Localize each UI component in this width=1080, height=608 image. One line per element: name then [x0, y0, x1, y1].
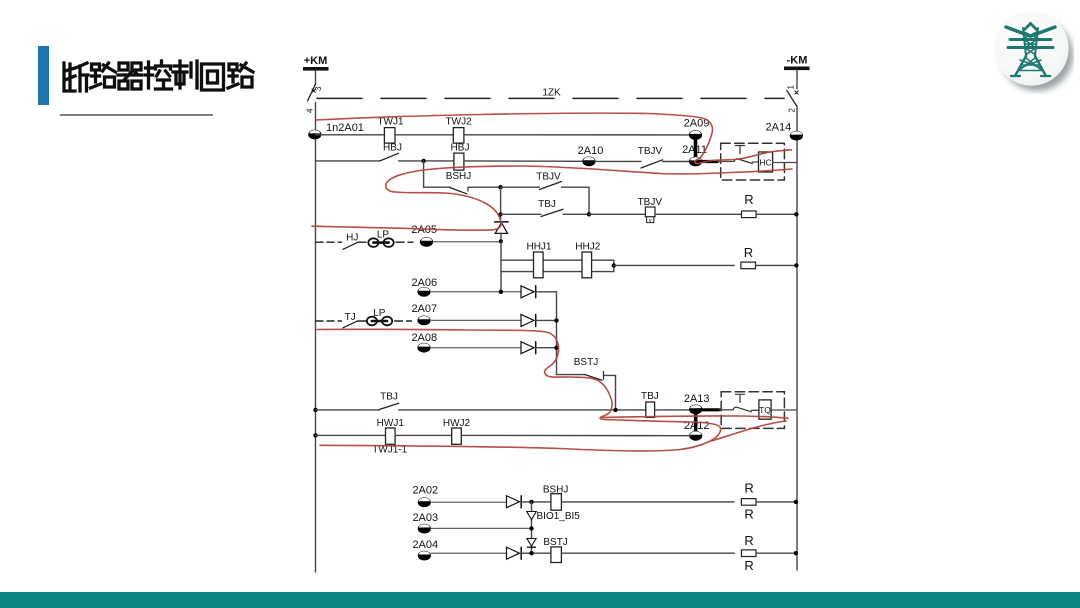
- title accent bar: [38, 46, 49, 105]
- node 2A09: [689, 130, 702, 140]
- svg-text:R: R: [744, 192, 753, 207]
- node 2A03: [418, 524, 431, 534]
- svg-text:HBJ: HBJ: [383, 143, 402, 154]
- contact TBJV blade (branch): [540, 182, 562, 190]
- red annotation tail D1: [601, 416, 788, 418]
- red annotation stroke C: [317, 329, 721, 451]
- svg-text:TWJ1: TWJ1: [377, 117, 404, 128]
- junction bus 2A07: [554, 318, 558, 322]
- wire to HC coil: [753, 161, 759, 163]
- contact BSHJ right stub: [468, 187, 501, 191]
- dashed breaker box (TQ): [721, 392, 784, 429]
- svg-text:TBJV: TBJV: [638, 146, 663, 157]
- svg-text:2A04: 2A04: [412, 539, 438, 551]
- coil TQ box: [759, 400, 771, 419]
- wire after HHJ2 upper: [592, 259, 614, 261]
- svg-text:HHJ1: HHJ1: [526, 241, 551, 252]
- svg-text:3: 3: [314, 86, 323, 91]
- wire D3 to bus: [536, 319, 557, 321]
- svg-text:HJ: HJ: [346, 233, 358, 244]
- red annotation stroke B: [312, 166, 792, 230]
- wire row1 mid: [395, 134, 453, 136]
- junction left rail row4: [313, 408, 317, 412]
- bold link 2A13-2A12: [694, 412, 698, 433]
- wire to 2A11: [663, 161, 691, 163]
- wire HHJ merge vertical: [613, 260, 615, 271]
- svg-text:4: 4: [306, 108, 315, 113]
- svg-text:TBJ: TBJ: [538, 199, 556, 210]
- junction right rail 2A04: [794, 551, 798, 555]
- junction HHJ output: [612, 263, 616, 267]
- red annotation tail D2: [711, 421, 786, 441]
- breaker aux link mark (TQ): [736, 394, 745, 402]
- svg-text:R: R: [744, 480, 753, 495]
- relay BSHJ coil box (bottom): [551, 494, 562, 511]
- wire row5 mid: [395, 434, 452, 436]
- svg-text:1: 1: [787, 85, 796, 90]
- bold stub 2A11 right: [698, 160, 718, 163]
- relay HBJ coil box (row2): [454, 153, 464, 170]
- node 2A08: [417, 343, 430, 353]
- contact TBJ blade: [541, 209, 563, 216]
- wire row5 right: [461, 434, 690, 436]
- node 2A10: [582, 157, 595, 167]
- dash after LP: [396, 241, 413, 243]
- wire TBJV to resistor: [655, 213, 742, 215]
- link LP (TJ row): [367, 317, 392, 326]
- wire row2: [399, 160, 454, 162]
- wire left rail: [315, 103, 317, 573]
- dashed breaker box (HC): [721, 143, 785, 180]
- svg-text:R: R: [744, 506, 753, 521]
- wire corner down: [588, 187, 590, 214]
- wire row5 left: [316, 434, 386, 436]
- node 1n2A01: [308, 130, 321, 140]
- wire resistor to rail (2A02): [756, 501, 797, 503]
- dash after LP (TJ row): [395, 320, 412, 322]
- wire TQ to right rail: [771, 409, 797, 411]
- svg-text:BSTJ: BSTJ: [574, 357, 598, 368]
- wire row1 right: [464, 134, 690, 136]
- resistor R (2A02 row): [741, 499, 756, 506]
- wire right rail: [796, 107, 798, 571]
- wire node A to TBJV blade: [501, 186, 540, 188]
- diode D2 (2A06 row): [521, 286, 536, 298]
- relay TWJ1 coil box: [384, 128, 395, 144]
- junction bus 2A08: [554, 346, 558, 350]
- wire after HHJ2 lower: [592, 271, 614, 273]
- switch QF pole (left) blade: [308, 84, 316, 101]
- pin mark x: [312, 89, 315, 92]
- wire 2A02 row: [431, 501, 508, 503]
- junction 2A02 column: [529, 500, 533, 504]
- relay TWJ2 coil box: [453, 128, 464, 144]
- relay HWJ2 coil box: [452, 428, 462, 444]
- breaker aux contact blade: [734, 159, 753, 164]
- junction right rail row 214: [794, 212, 798, 216]
- -KM bus bar: [784, 67, 810, 71]
- contact BSHJ blade: [450, 188, 467, 194]
- wire row2 right: [464, 160, 584, 162]
- svg-text:R: R: [744, 245, 753, 260]
- junction TBJ/TBJV merge: [587, 212, 591, 216]
- diode D7 (link, down): [527, 539, 536, 547]
- title glyphs 断路器控制回路 (hand drawn strokes): [62, 59, 262, 99]
- bottom teal bar: [0, 592, 1080, 608]
- wire row4 mid: [399, 409, 646, 411]
- junction BSTJ/row4: [613, 408, 617, 412]
- svg-text:BIO1_BI5: BIO1_BI5: [537, 511, 581, 522]
- junction right rail row 265: [794, 263, 798, 267]
- diode D3 (2A07 row): [521, 314, 536, 326]
- wire HHJ lower branch: [501, 271, 534, 273]
- dashed wire HJ row: [316, 241, 342, 243]
- svg-text:2A10: 2A10: [578, 145, 604, 157]
- wire BSHJ to resistor: [561, 501, 734, 503]
- wire diode column down: [500, 242, 502, 272]
- wire HHJ upper branch: [501, 259, 534, 261]
- wire diode to 2A05 row: [500, 233, 502, 241]
- junction row2/BSHJ branch: [421, 159, 425, 163]
- wire D5 to junction: [522, 501, 551, 503]
- node 2A13: [689, 405, 702, 415]
- diode D5 (2A02 row): [507, 496, 522, 508]
- node 2A12: [689, 431, 702, 441]
- wire 2A06 row: [431, 291, 522, 293]
- dash after HJ: [358, 241, 366, 243]
- junction right rail 2A02: [794, 500, 798, 504]
- wire row4 to 2A13: [655, 409, 691, 411]
- bus vertical: [556, 292, 558, 375]
- dash after TJ: [358, 320, 366, 322]
- svg-text:v: v: [649, 218, 652, 224]
- svg-text:TBJ: TBJ: [641, 391, 659, 402]
- svg-text:BSTJ: BSTJ: [543, 537, 567, 548]
- svg-text:2: 2: [788, 108, 797, 113]
- wire 2A04 row: [431, 552, 508, 554]
- diode D7 bar: [528, 546, 536, 548]
- relay HWJ1 coil box: [386, 428, 396, 444]
- link LP (HJ row): [368, 238, 393, 247]
- wire row2 left: [316, 160, 380, 162]
- svg-text:HBJ: HBJ: [451, 143, 470, 154]
- wire 2A08 row: [431, 347, 522, 349]
- wire BSTJ corner down: [615, 375, 617, 409]
- wire TBJV to corner: [562, 186, 590, 188]
- wire -KM down: [796, 70, 798, 89]
- vertical link 2A02-2A04: [531, 502, 533, 553]
- contact TJ blade: [343, 321, 358, 328]
- junction 2A06/diode column: [499, 290, 503, 294]
- relay TBJ coil box (row4): [646, 402, 655, 417]
- relay BSTJ coil box (bottom): [551, 547, 562, 563]
- wire diode column to 2A06 row: [500, 272, 502, 292]
- svg-text:2A14: 2A14: [766, 121, 792, 133]
- node 2A07: [417, 316, 430, 326]
- wire 2A07 row: [431, 319, 522, 321]
- bold stub 2A13 right: [698, 408, 719, 411]
- svg-text:TBJ: TBJ: [380, 392, 398, 403]
- pin mark x: [795, 91, 798, 94]
- contact HJ blade: [343, 242, 358, 249]
- wire row2 to TBJV contact: [595, 160, 641, 162]
- svg-text:1n2A01: 1n2A01: [326, 122, 364, 134]
- svg-text:2A13: 2A13: [684, 393, 710, 405]
- wire to TQ coil: [752, 409, 759, 411]
- wire BSTJ to corner: [604, 374, 616, 376]
- wire TBJ row: [501, 213, 541, 215]
- svg-text:TJ: TJ: [345, 312, 356, 323]
- svg-text:2A07: 2A07: [411, 303, 437, 315]
- diode D4 (2A08 row): [521, 342, 536, 354]
- svg-text:TQ: TQ: [759, 405, 771, 415]
- svg-text:2A08: 2A08: [411, 332, 437, 344]
- svg-text:HC: HC: [759, 158, 771, 168]
- junction TBJ row: [499, 212, 503, 216]
- svg-text:TBJV: TBJV: [536, 171, 561, 182]
- bold link 2A09-2A11: [694, 138, 698, 159]
- svg-text:2A03: 2A03: [412, 512, 438, 524]
- resistor R (row 214): [742, 211, 757, 218]
- diode D1 (up) triangle: [495, 223, 507, 234]
- svg-text:+KM: +KM: [304, 55, 328, 67]
- coil HC box: [759, 152, 773, 172]
- wire to TBJV relay: [589, 213, 645, 215]
- wire bus corner to BSTJ contact: [557, 374, 586, 376]
- contact HBJ blade: [380, 153, 399, 161]
- wire BSTJ to resistor (bottom): [561, 552, 734, 554]
- wire 2A05 to diode column: [433, 241, 501, 243]
- wire between HHJ boxes upper: [543, 259, 582, 261]
- wire 2A03 row: [431, 527, 532, 529]
- svg-text:TBJV: TBJV: [638, 197, 663, 208]
- relay TBJV coil box with V element: [645, 207, 655, 217]
- wire HC to right rail: [773, 162, 797, 164]
- svg-text:1ZK: 1ZK: [542, 88, 561, 99]
- resistor R (row 265): [741, 262, 756, 269]
- wire D2 to bus: [536, 291, 557, 293]
- wire resistor to rail: [756, 213, 797, 215]
- title underline: [60, 114, 213, 116]
- node 2A04: [418, 551, 431, 561]
- 1ZK dashed boundary line: [317, 97, 784, 99]
- diode D1 (up) bar: [495, 221, 509, 223]
- wire TBJ to junction: [563, 213, 589, 215]
- wire row4 left: [316, 409, 380, 411]
- svg-text:-KM: -KM: [787, 55, 808, 67]
- breaker aux link mark: [736, 146, 745, 154]
- contact TBJ blade (row4): [379, 403, 398, 409]
- red annotation stroke A: [312, 113, 792, 451]
- wire into TQ contact: [719, 409, 733, 411]
- branch BSHJ: horizontal: [424, 186, 450, 188]
- wire row1: [316, 134, 385, 136]
- diode D6 (link, down): [527, 512, 537, 520]
- wire +KM down to switch: [315, 71, 317, 84]
- wire vertical node A down: [500, 187, 502, 222]
- wire resistor to rail (2A04): [756, 552, 797, 554]
- junction 2A04 column: [529, 551, 533, 555]
- relay HHJ2 coil box: [582, 252, 592, 278]
- diode D8 (2A04 row): [507, 547, 522, 559]
- svg-text:R: R: [744, 558, 753, 573]
- relay TBJV V box: [647, 217, 654, 223]
- wire D8 to junction: [522, 552, 551, 554]
- wire HHJ output: [614, 264, 734, 266]
- node 2A14: [790, 131, 803, 141]
- svg-text:TWJ2: TWJ2: [446, 117, 473, 128]
- wire D4 to bus: [536, 347, 557, 349]
- node 2A02: [418, 497, 431, 507]
- contact TBJV blade (row2): [641, 160, 663, 168]
- node 2A11: [689, 157, 702, 167]
- wire resistor to rail (row 265): [756, 264, 798, 266]
- junction 2A05/diode: [499, 239, 503, 243]
- wire into HC contact: [718, 161, 735, 163]
- dashed wire TJ row: [316, 320, 342, 322]
- branch BSHJ: down from row2 junction: [423, 161, 425, 187]
- switch QF pole (right) blade: [787, 91, 797, 107]
- contact BSTJ blade: [585, 375, 602, 381]
- node A junction: [498, 185, 502, 189]
- svg-text:2A02: 2A02: [412, 485, 438, 497]
- node 2A05: [420, 237, 433, 247]
- node 2A06: [417, 287, 430, 297]
- +KM bus bar: [303, 67, 329, 71]
- contact BSTJ tick: [603, 372, 605, 380]
- svg-text:R: R: [744, 533, 753, 548]
- relay HHJ1 coil box: [534, 252, 544, 278]
- junction 2A03 column: [529, 526, 533, 530]
- logo: [992, 8, 1074, 94]
- svg-text:BSHJ: BSHJ: [446, 171, 472, 182]
- junction left rail row5: [313, 433, 317, 437]
- breaker aux contact blade (TQ): [733, 407, 752, 412]
- resistor R (2A04 row): [741, 550, 756, 557]
- svg-text:HHJ2: HHJ2: [575, 241, 600, 252]
- wire between HHJ boxes lower: [543, 271, 582, 273]
